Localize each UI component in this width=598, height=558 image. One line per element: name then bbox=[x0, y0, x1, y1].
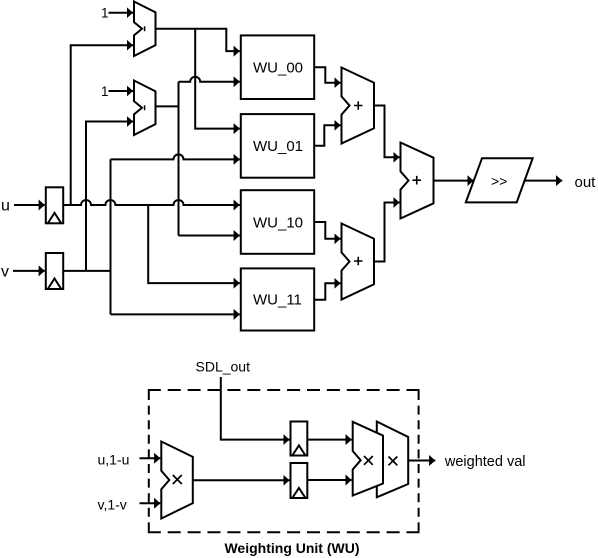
svg-text:v,1-v: v,1-v bbox=[98, 496, 127, 512]
minus tick inside SUB2 bbox=[144, 105, 146, 110]
wire shifter output to out bbox=[525, 180, 563, 182]
wire REGA output to M2 bbox=[307, 439, 351, 441]
dashed boundary: left edge bbox=[148, 391, 150, 531]
wire WU_10 output to ADD2 bbox=[314, 222, 340, 239]
wire vertical v-tap x110.5 (to WU_01 lower and WU_11 lower) bbox=[110, 159, 112, 314]
times sign M2 bbox=[364, 456, 373, 465]
times sign M3 bbox=[389, 457, 398, 466]
svg-text:u,1-u: u,1-u bbox=[98, 452, 130, 468]
plus sign ADD1 bbox=[354, 101, 363, 110]
svg-text:Weighting Unit (WU): Weighting Unit (WU) bbox=[224, 540, 359, 556]
svg-text:WU_01: WU_01 bbox=[253, 138, 303, 155]
wire v,1-v input to M1 bbox=[140, 502, 161, 504]
wire SDL_out to REGA bbox=[221, 377, 290, 440]
block WU_10 bbox=[241, 190, 314, 254]
wire SUB2 branch vertical bbox=[178, 82, 180, 236]
dashed boundary: bottom edge bbox=[148, 531, 420, 533]
register REGA bbox=[291, 422, 308, 456]
wire u input to register bbox=[14, 204, 45, 206]
svg-text:WU_00: WU_00 bbox=[253, 60, 303, 77]
svg-text:WU_10: WU_10 bbox=[253, 214, 303, 231]
wire 1 to SUB1 top input bbox=[109, 12, 134, 14]
register REGu bbox=[46, 187, 63, 223]
subtractor SUB2 (1-v) bbox=[134, 81, 156, 136]
wire SUB2 output bbox=[156, 105, 179, 107]
wire ADD1 output to ADD3 bbox=[374, 106, 400, 158]
wire u to SUB1 bottom input bbox=[71, 45, 133, 205]
wire 1 to SUB2 top input bbox=[109, 90, 134, 92]
wire WU_01 output to ADD1 bbox=[314, 125, 340, 146]
clock caret REGv bbox=[48, 279, 61, 290]
minus tick inside SUB1 bbox=[144, 26, 146, 31]
subtractor SUB1 (1-u) bbox=[134, 2, 156, 57]
block WU_00 bbox=[241, 35, 314, 99]
wire v bus (register to junction x110.5) bbox=[63, 270, 110, 272]
wire WU_11 lower feed bbox=[111, 313, 240, 315]
wire M1 output to REGB bbox=[193, 479, 290, 481]
adder ADD2 bbox=[342, 224, 375, 300]
dashed boundary: right edge bbox=[418, 391, 420, 531]
wire u,1-u input to M1 bbox=[140, 457, 161, 459]
multiplier M1 bbox=[161, 442, 193, 519]
multiplier M2 (front shape, white fill) bbox=[353, 422, 383, 496]
wire vertical u-tap to WU_11 upper bbox=[148, 205, 240, 283]
wire WU_11 output to ADD2 bbox=[314, 283, 340, 300]
wire v to SUB2 bottom input bbox=[86, 122, 133, 271]
clock caret REGA bbox=[292, 446, 305, 456]
svg-text:WU_11: WU_11 bbox=[253, 292, 302, 309]
wire WU_00 output to ADD1 bbox=[314, 67, 340, 82]
clock caret REGB bbox=[292, 488, 305, 498]
svg-text:weighted val: weighted val bbox=[444, 454, 526, 470]
wire SUB1 output branch to WU_01 upper bbox=[195, 29, 240, 129]
svg-text:1: 1 bbox=[101, 84, 109, 99]
register REGv bbox=[46, 253, 63, 289]
svg-text:v: v bbox=[1, 264, 9, 281]
times sign M1 bbox=[173, 475, 182, 484]
svg-text:>>: >> bbox=[491, 173, 507, 189]
wire WU_10 lower feed bbox=[179, 235, 240, 237]
wire u bus (register to WU_10 upper input, with hops) bbox=[63, 200, 240, 205]
wire v input to register bbox=[13, 270, 45, 272]
register REGB bbox=[291, 463, 308, 498]
dashed boundary Weighting Unit: top edge bbox=[148, 389, 420, 391]
shifter parallelogram bbox=[466, 158, 533, 202]
wire WU_01 lower feed (hop over x178.5) bbox=[111, 154, 240, 159]
wire SUB1 output bbox=[156, 29, 240, 51]
multiplier M3 (back shape) bbox=[377, 422, 408, 498]
plus sign ADD2 bbox=[354, 257, 363, 266]
adder ADD1 bbox=[342, 68, 375, 144]
svg-text:out: out bbox=[575, 174, 597, 191]
wire ADD2 output to ADD3 bbox=[374, 203, 400, 262]
block WU_11 bbox=[241, 268, 314, 330]
svg-text:u: u bbox=[1, 198, 10, 215]
adder ADD3 bbox=[401, 143, 434, 219]
wire M2/M3 output to weighted val bbox=[408, 460, 435, 462]
block WU_01 bbox=[241, 114, 314, 178]
wire ADD3 output to shifter bbox=[434, 180, 474, 182]
svg-text:1: 1 bbox=[101, 6, 109, 21]
wire REGB output to M2 bbox=[307, 479, 351, 481]
svg-text:SDL_out: SDL_out bbox=[196, 359, 251, 375]
plus sign ADD3 bbox=[413, 176, 422, 185]
clock caret REGu bbox=[48, 213, 61, 224]
wire WU_00 lower feed (hop over x195.2) bbox=[179, 77, 240, 82]
